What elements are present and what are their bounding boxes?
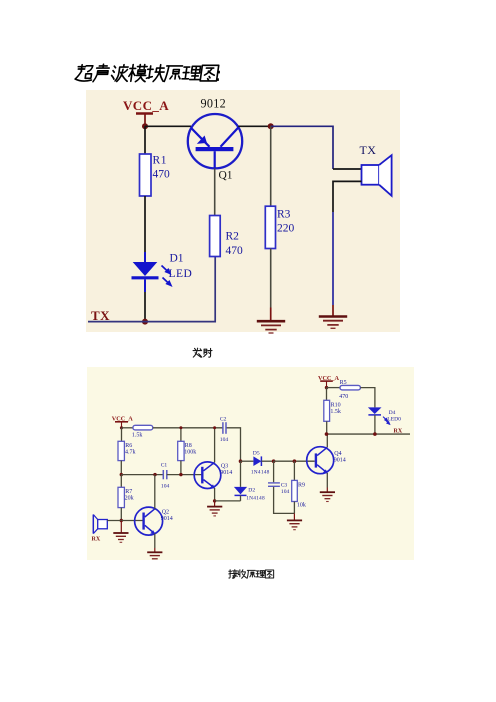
wire D5 anode down to D2 — [240, 461, 242, 487]
wire VCC node down to R1 — [144, 126, 146, 154]
resistor R10 — [324, 400, 330, 421]
capacitor C3 — [268, 483, 280, 486]
svg-text:D1: D1 — [170, 253, 184, 265]
wire Q3 emitter to ground — [214, 501, 216, 507]
LED emission arrows D1 — [162, 266, 171, 286]
svg-text:104: 104 — [281, 489, 290, 495]
LED D1 — [133, 262, 158, 276]
svg-text:LED: LED — [169, 268, 193, 280]
ground (mic) — [113, 533, 128, 542]
wire D4 to RX rail — [374, 415, 376, 434]
title colon — [217, 71, 220, 81]
svg-text:R7: R7 — [125, 489, 132, 495]
ground (Q3) — [207, 507, 222, 516]
svg-text:C1: C1 — [161, 463, 168, 469]
power bar VCC_A — [136, 114, 153, 127]
svg-text:9014: 9014 — [220, 470, 232, 476]
wire node to speaker corner — [271, 126, 333, 169]
svg-text:220: 220 — [277, 223, 295, 235]
svg-text:470: 470 — [153, 169, 171, 181]
node D5 anode junction — [239, 459, 243, 463]
wire Q1 collector to node — [238, 125, 271, 127]
wire Q3 emitter to D2 — [215, 500, 241, 502]
caption 接收原理图 — [229, 570, 274, 579]
svg-text:104: 104 — [220, 437, 229, 443]
wire R9 bottom — [293, 502, 295, 514]
svg-text:R9: R9 — [298, 482, 305, 488]
speaker TX — [362, 155, 392, 196]
wire Q4 emitter to ground — [326, 473, 328, 488]
svg-text:D5: D5 — [253, 451, 260, 457]
wire R3 to ground — [270, 249, 272, 308]
svg-text:1N4148: 1N4148 — [251, 470, 270, 476]
schematic 1 background — [86, 90, 400, 332]
LED D4 — [368, 407, 382, 415]
wire C1 to R8 node — [167, 474, 202, 476]
resistor R5 (horizontal) — [340, 385, 360, 390]
svg-text:R1: R1 — [153, 155, 168, 167]
svg-text:9012: 9012 — [201, 97, 227, 111]
svg-text:C2: C2 — [220, 416, 227, 422]
node Q2 collector junction — [153, 473, 156, 476]
node R8 top — [179, 426, 182, 429]
svg-text:1N4148: 1N4148 — [246, 496, 265, 502]
wire Q3 collector to rail — [214, 428, 216, 463]
ground (speaker) — [319, 317, 347, 329]
svg-text:Q2: Q2 — [162, 510, 169, 516]
node VCC junction (right) — [325, 386, 328, 389]
title 超声波模块原理图: — [75, 64, 219, 81]
wire mic node to ground — [120, 521, 122, 533]
node Q3 collector rail — [213, 426, 216, 429]
node RX rail R10 junction — [325, 432, 329, 436]
ground (Q4) — [320, 492, 335, 501]
svg-text:RX: RX — [92, 537, 101, 543]
wire TX rail — [88, 257, 215, 322]
wire R9 to ground — [293, 513, 295, 520]
transistor Q2 — [135, 507, 163, 535]
wire R10 to rail — [326, 421, 328, 434]
svg-text:R5: R5 — [340, 380, 347, 386]
svg-text:1.5k: 1.5k — [330, 409, 341, 415]
node RX rail D4 junction — [373, 432, 377, 436]
node VCC junction (left) — [120, 426, 123, 429]
svg-text:R10: R10 — [331, 403, 341, 409]
svg-text:9014: 9014 — [334, 458, 346, 464]
wire VCC down to R10 — [326, 388, 328, 401]
svg-text:VCC_A: VCC_A — [123, 98, 169, 113]
svg-text:104: 104 — [161, 484, 170, 490]
ground (Q2) — [147, 552, 162, 559]
node VCC junction dot — [142, 123, 148, 129]
svg-text:4.7k: 4.7k — [125, 449, 136, 455]
svg-text:RX: RX — [394, 428, 403, 434]
node mic junction — [120, 519, 123, 522]
node TX rail junction dot — [142, 319, 148, 325]
wire Q4 collector to rail — [326, 434, 328, 447]
svg-text:C3: C3 — [281, 482, 288, 488]
wire to D5 — [241, 460, 254, 462]
svg-text:1.5k: 1.5k — [132, 432, 143, 438]
wire corner to speaker — [333, 168, 362, 170]
svg-text:9014: 9014 — [161, 516, 173, 522]
wire D2 cathode down — [240, 495, 242, 501]
node C3 junction — [272, 459, 276, 463]
ground (C3 R9) — [287, 520, 302, 529]
svg-text:R6: R6 — [125, 443, 132, 449]
svg-text:R2: R2 — [226, 231, 240, 243]
node R3 junction dot — [268, 123, 274, 129]
resistor R2 — [210, 216, 221, 257]
svg-text:Q3: Q3 — [221, 463, 228, 469]
resistor 1.5k (horizontal) — [133, 425, 153, 430]
wire C3 node to R9 node — [274, 460, 315, 462]
transistor Q3 — [194, 462, 221, 489]
wire R9 top — [293, 461, 295, 480]
power bar VCC_A (right) — [320, 381, 333, 388]
LED emission arrows D4 — [383, 417, 390, 425]
wire R6 to base node — [120, 461, 122, 475]
resistor R8 — [178, 441, 184, 460]
resistor R6 — [118, 441, 124, 460]
diode D2 — [234, 487, 247, 496]
resistor R9 — [292, 480, 298, 501]
svg-text:10k: 10k — [297, 502, 306, 508]
wire Q2 collector up — [154, 475, 156, 509]
caption 发射 — [193, 348, 212, 357]
svg-text:D4: D4 — [389, 410, 396, 416]
wire top rail — [153, 427, 223, 429]
svg-text:TX: TX — [360, 143, 377, 157]
svg-text:470: 470 — [226, 245, 244, 257]
resistor R3 — [265, 206, 275, 248]
wire D1 to TX rail — [144, 292, 146, 322]
transistor Q1 — [188, 114, 242, 168]
ground (R3) — [257, 321, 285, 333]
node R9 junction — [293, 459, 297, 463]
wire junction to C1 — [121, 474, 163, 476]
wire node down to R3 — [270, 126, 272, 206]
svg-text:Q4: Q4 — [334, 451, 341, 457]
svg-text:Q1: Q1 — [219, 170, 233, 182]
wire mic to Q2 base — [107, 520, 142, 522]
microphone RX transducer — [93, 515, 107, 534]
node R8 bottom junction — [179, 473, 182, 476]
resistor R7 — [118, 487, 124, 507]
capacitor C1 — [163, 470, 167, 479]
resistor R1 — [140, 154, 152, 196]
wire VCC node to Q1 emitter — [145, 125, 191, 127]
wire VCC down to R6 — [121, 428, 123, 442]
wire Q3 emitter down — [214, 488, 216, 501]
wire VCC to 1.5k resistor — [122, 427, 133, 429]
svg-text:R3: R3 — [277, 209, 291, 221]
wire R1 to D1 — [144, 196, 146, 252]
svg-text:D2: D2 — [248, 487, 255, 493]
wire R7 to mic node — [120, 508, 122, 521]
wire Q2 emitter to ground — [154, 534, 156, 548]
wire RX rail — [327, 433, 411, 435]
wire down to C3 — [273, 461, 275, 482]
svg-text:R8: R8 — [185, 443, 192, 449]
schematic 2 background — [87, 367, 414, 560]
svg-text:470: 470 — [339, 394, 348, 400]
capacitor C2 — [223, 422, 226, 434]
wire junction down to R7 — [120, 475, 122, 488]
wire Q1 base to R2 — [214, 168, 216, 215]
wire C3 bottom — [274, 487, 295, 514]
svg-text:20k: 20k — [125, 495, 134, 501]
wire speaker lower terminal — [333, 181, 362, 212]
node R6/R7 junction — [120, 473, 123, 476]
wire rail down to R8 — [180, 428, 182, 442]
svg-text:100k: 100k — [184, 449, 196, 455]
wire D5 cathode to C3 node — [261, 460, 273, 462]
node Q3 emitter junction — [213, 499, 216, 502]
power bar VCC_A (left) — [115, 422, 128, 428]
diode D5 — [253, 456, 261, 466]
wire VCC to R5 — [327, 387, 341, 389]
wire R5 to D4 — [360, 388, 375, 408]
wire R8 to base wire — [180, 461, 182, 475]
transistor Q4 — [307, 447, 334, 474]
svg-text:LED0: LED0 — [387, 416, 401, 422]
